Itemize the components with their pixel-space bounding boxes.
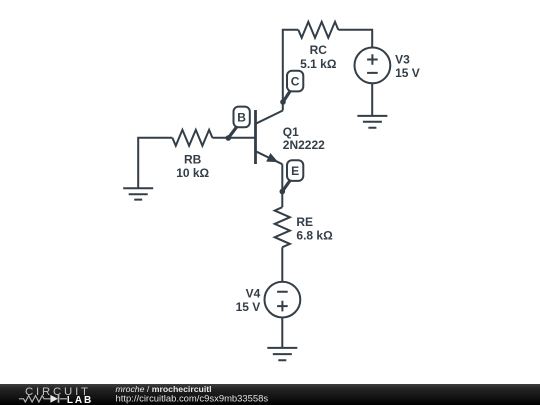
svg-text:E: E [291, 164, 299, 178]
wire emitter down to RE [281, 164, 283, 207]
node dot C [280, 99, 286, 105]
resistor RE [275, 207, 290, 247]
node flag E [282, 181, 290, 192]
node label E [287, 160, 303, 181]
svg-text:RB: RB [184, 153, 202, 167]
wire V4 to ground [281, 318, 283, 348]
ground (RB) [123, 188, 153, 199]
node dot B [226, 135, 232, 141]
voltage source V4 [265, 282, 301, 318]
node label B [234, 107, 250, 128]
wire RB left vertical [138, 138, 172, 189]
svg-text:6.8 kΩ: 6.8 kΩ [296, 229, 333, 243]
voltage source V3 [355, 48, 391, 84]
transistor Q1 base bar [254, 110, 257, 164]
svg-text:mroche / mrochecircuitl: mroche / mrochecircuitl [116, 384, 212, 394]
wire RE to V4 [281, 247, 283, 282]
footer bar [0, 384, 540, 405]
svg-text:C: C [291, 74, 300, 88]
svg-text:15 V: 15 V [236, 300, 261, 314]
svg-text:RC: RC [310, 43, 328, 57]
node flag C [283, 91, 291, 103]
transistor Q1 emitter arrow [266, 153, 278, 162]
svg-text:2N2222: 2N2222 [283, 138, 325, 152]
node label C [287, 71, 303, 92]
svg-text:V4: V4 [246, 286, 261, 300]
resistor RC [298, 22, 338, 38]
svg-text:V3: V3 [395, 52, 410, 66]
logo diode triangle [50, 395, 58, 403]
transistor Q1 collector lead [256, 111, 283, 124]
resistor RB [172, 130, 212, 146]
svg-text:LAB: LAB [67, 395, 93, 405]
node dot E [280, 189, 286, 195]
svg-text:5.1 kΩ: 5.1 kΩ [300, 57, 337, 71]
ground (V3) [357, 116, 387, 128]
svg-text:15 V: 15 V [395, 66, 420, 80]
wire top-left vertical (collector to RC) [283, 30, 299, 111]
svg-text:http://circuitlab.com/c9sx9mb3: http://circuitlab.com/c9sx9mb33558s [116, 394, 269, 405]
svg-text:10 kΩ: 10 kΩ [176, 166, 209, 180]
logo resistor-diode line [19, 395, 67, 403]
ground (V4) [267, 348, 297, 360]
wire RB to base [212, 137, 255, 139]
transistor Q1 emitter lead [256, 151, 283, 164]
node flag B [228, 127, 237, 139]
svg-text:RE: RE [296, 215, 313, 229]
wire V3 to ground [371, 83, 373, 116]
wire RC to V3 top [338, 30, 372, 48]
svg-text:B: B [237, 110, 246, 124]
